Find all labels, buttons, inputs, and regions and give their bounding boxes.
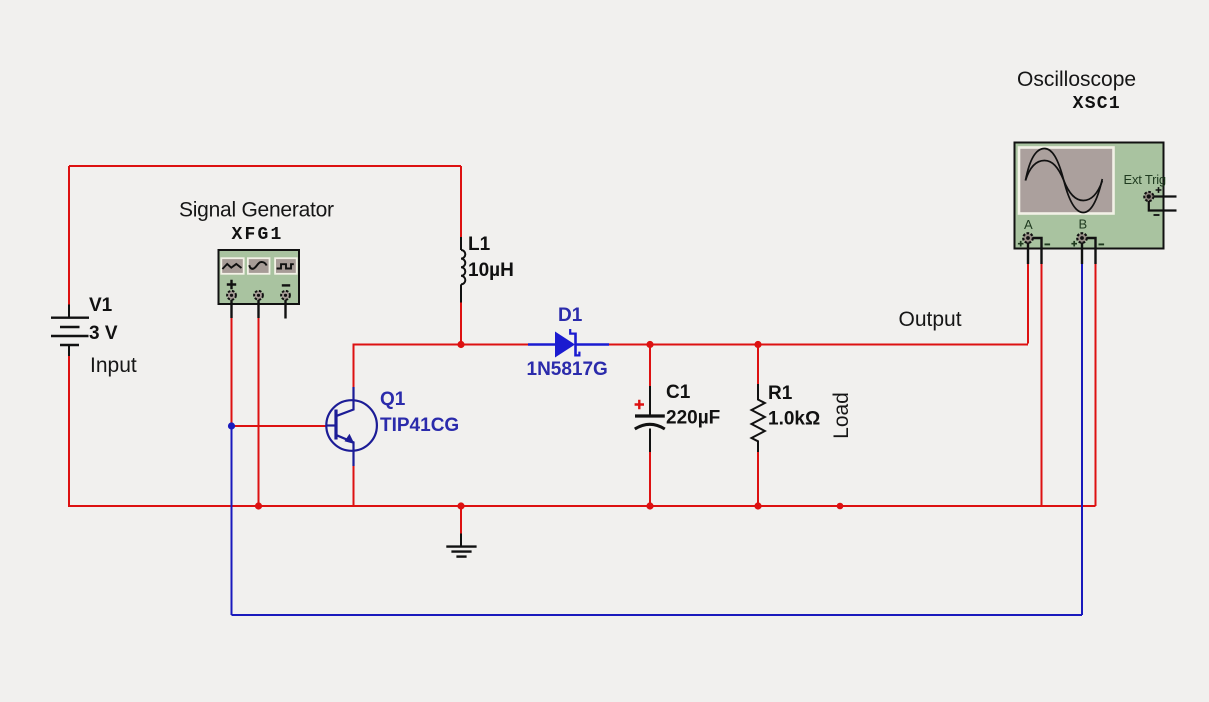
- wire collector net horizontal left part: [353, 344, 529, 346]
- Q1 emitter arrow: [345, 434, 355, 444]
- svg-text:V1: V1: [89, 295, 113, 316]
- wire R1 bottom: [757, 452, 759, 506]
- wire Q1 emitter to rail: [353, 466, 355, 506]
- scope A plus mark: [1018, 241, 1024, 247]
- wire ground stub: [460, 506, 462, 534]
- XFG1 terminal common: [254, 291, 263, 300]
- wire R1 top: [757, 345, 759, 385]
- wire XFG1 plus terminal down to node A: [231, 317, 233, 426]
- svg-text:10µH: 10µH: [468, 260, 514, 281]
- scope terminal A: [1023, 233, 1033, 243]
- oscilloscope trace large: [1026, 149, 1103, 213]
- svg-text:Q1: Q1: [380, 389, 406, 410]
- C1 plus polarity mark: [635, 400, 644, 409]
- svg-text:B: B: [1079, 217, 1088, 232]
- scope A minus mark: [1045, 243, 1051, 245]
- Ext Trig pin stub plus: [1153, 195, 1176, 197]
- Ext Trig plus mark: [1156, 187, 1162, 193]
- wire L1 top drop: [460, 166, 462, 237]
- svg-text:A: A: [1024, 217, 1033, 232]
- node junction R1 top: [754, 341, 761, 348]
- svg-text:1.0kΩ: 1.0kΩ: [768, 409, 820, 430]
- XFG1 terminal plus: [227, 291, 236, 300]
- wire scope A minus down to rail: [1041, 264, 1043, 506]
- signal generator XFG1 body: [219, 250, 300, 304]
- svg-text:Oscilloscope: Oscilloscope: [1017, 68, 1136, 91]
- scope B plus mark: [1071, 241, 1077, 247]
- wire collector up: [353, 345, 355, 388]
- wire bottom ground rail: [68, 505, 1096, 507]
- scope B pin stub: [1081, 243, 1083, 265]
- battery V1: [51, 305, 89, 357]
- svg-text:R1: R1: [768, 383, 793, 404]
- svg-text:XFG1: XFG1: [232, 225, 284, 245]
- wire battery bottom to ground rail: [68, 356, 70, 507]
- svg-text:L1: L1: [468, 234, 491, 255]
- node junction rail extra: [837, 503, 844, 510]
- scope B minus mark: [1099, 243, 1105, 245]
- wire L1 bottom: [460, 303, 462, 345]
- node junction L1 bottom: [457, 341, 464, 348]
- wire base wire node A to Q1 base: [232, 425, 327, 427]
- svg-text:220µF: 220µF: [666, 408, 720, 429]
- wire battery left vertical: [68, 166, 70, 305]
- capacitor C1: [635, 386, 665, 452]
- ground: [446, 534, 476, 557]
- svg-text:TIP41CG: TIP41CG: [380, 415, 459, 436]
- XFG1 minus marking: [282, 284, 290, 286]
- node junction C1 top: [646, 341, 653, 348]
- wire blue node A down: [231, 426, 233, 615]
- node junction C1 rail: [646, 502, 653, 509]
- wire C1 top: [649, 345, 651, 387]
- scope A minus pin stub: [1033, 238, 1042, 264]
- scope A pin stub: [1027, 243, 1029, 265]
- svg-text:Signal Generator: Signal Generator: [179, 199, 334, 222]
- oscilloscope trace small: [1026, 161, 1103, 201]
- svg-text:Load: Load: [830, 392, 853, 439]
- svg-text:C1: C1: [666, 382, 691, 403]
- node junction ground rail: [457, 502, 464, 509]
- XFG1 terminal minus: [281, 291, 290, 300]
- resistor R1: [752, 384, 765, 452]
- XFG1 plus marking: [227, 280, 236, 289]
- transistor Q1: [326, 387, 377, 466]
- XFG1 pin stub plus: [230, 300, 232, 318]
- Ext Trig terminal: [1144, 192, 1153, 201]
- wire scope A plus vertical: [1027, 264, 1029, 344]
- node junction XFG common rail: [255, 502, 262, 509]
- node junction R1 rail: [754, 502, 761, 509]
- svg-text:Ext Trig: Ext Trig: [1124, 172, 1166, 187]
- wire blue bottom horizontal: [232, 614, 1083, 616]
- svg-text:3 V: 3 V: [89, 323, 118, 344]
- wire scope B minus down to rail: [1095, 264, 1097, 506]
- wire top rail from battery to L1: [69, 165, 461, 167]
- svg-text:Output: Output: [899, 308, 962, 331]
- svg-text:XSC1: XSC1: [1073, 94, 1121, 114]
- diode D1: [528, 329, 609, 358]
- wire blue scope B plus vertical: [1081, 264, 1083, 615]
- wire C1 bottom: [649, 452, 651, 506]
- svg-text:D1: D1: [558, 305, 583, 326]
- XFG1 pin stub minus: [284, 300, 286, 319]
- Ext Trig minus mark: [1154, 214, 1160, 216]
- XFG1 pin stub common: [257, 300, 259, 318]
- scope terminal B: [1077, 233, 1087, 243]
- node A blue junction: [228, 422, 235, 429]
- inductor L1: [461, 237, 465, 303]
- wire diode cathode to scope A: [609, 344, 1028, 346]
- svg-text:Input: Input: [90, 354, 137, 377]
- scope B minus pin stub: [1087, 238, 1096, 264]
- oscilloscope XSC1 body: [1015, 143, 1164, 249]
- wire XFG1 common terminal down to rail: [258, 317, 260, 506]
- Ext Trig pin stub minus: [1149, 201, 1177, 211]
- svg-text:1N5817G: 1N5817G: [527, 359, 608, 380]
